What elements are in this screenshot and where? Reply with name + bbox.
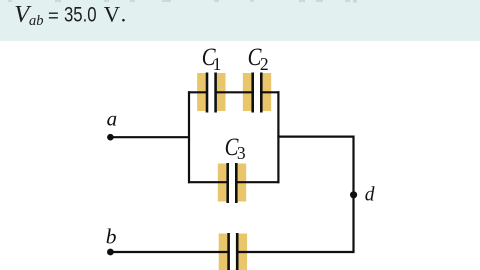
- node d (junction dot): [350, 191, 357, 198]
- wire: top edge left segment to C1: [188, 91, 208, 93]
- wire: right vertical through node d: [352, 136, 354, 252]
- wire: left edge of parallel box: [188, 91, 190, 183]
- capacitor C1 plates (gold slabs + black plate lines), center x=211.3 on top edge: [197, 73, 225, 113]
- svg-text:.: .: [121, 2, 127, 27]
- svg-text:2: 2: [260, 54, 269, 74]
- svg-text:b: b: [106, 225, 117, 249]
- node b (terminal dot): [107, 249, 114, 256]
- capacitor C4 plates (label cut off at image bottom), center x=232.9 on bottom wire: [219, 233, 247, 270]
- svg-text:3: 3: [237, 143, 246, 163]
- wire: top edge segment from C2 to top-right corner: [261, 91, 279, 93]
- capacitor C2 plates, center x=257 on top edge: [243, 73, 271, 113]
- label C3: [225, 134, 246, 163]
- cut-off text remnants of previous line: [8, 0, 357, 3]
- wire: bottom edge segment from C3 to bottom-right corner: [236, 181, 280, 183]
- label C1: [202, 44, 222, 74]
- svg-text:V: V: [104, 2, 120, 27]
- value label Vab = 35.0 V.: [14, 1, 126, 29]
- svg-text:1: 1: [213, 54, 222, 74]
- node a (terminal dot): [107, 134, 114, 141]
- problem statement banner: [0, 0, 480, 41]
- svg-text:a: a: [107, 107, 118, 131]
- wire: top edge segment between C1 and C2: [215, 91, 253, 93]
- wire: right edge of parallel box: [277, 91, 279, 183]
- capacitor C3 plates, center x=232 on bottom edge of box: [218, 163, 246, 203]
- svg-text:=: =: [48, 5, 59, 26]
- svg-text:35.0: 35.0: [64, 3, 97, 27]
- svg-text:ab: ab: [29, 13, 44, 29]
- wire from node a to left side of parallel box: [111, 136, 191, 138]
- label C2: [248, 44, 269, 74]
- wire: bottom run from C4 to right vertical: [237, 251, 355, 253]
- wire: bottom run from node b to C4: [111, 251, 230, 253]
- svg-text:d: d: [365, 185, 375, 206]
- wire from right side of box toward node d corner: [277, 136, 353, 138]
- wire: bottom edge left segment to C3: [188, 181, 228, 183]
